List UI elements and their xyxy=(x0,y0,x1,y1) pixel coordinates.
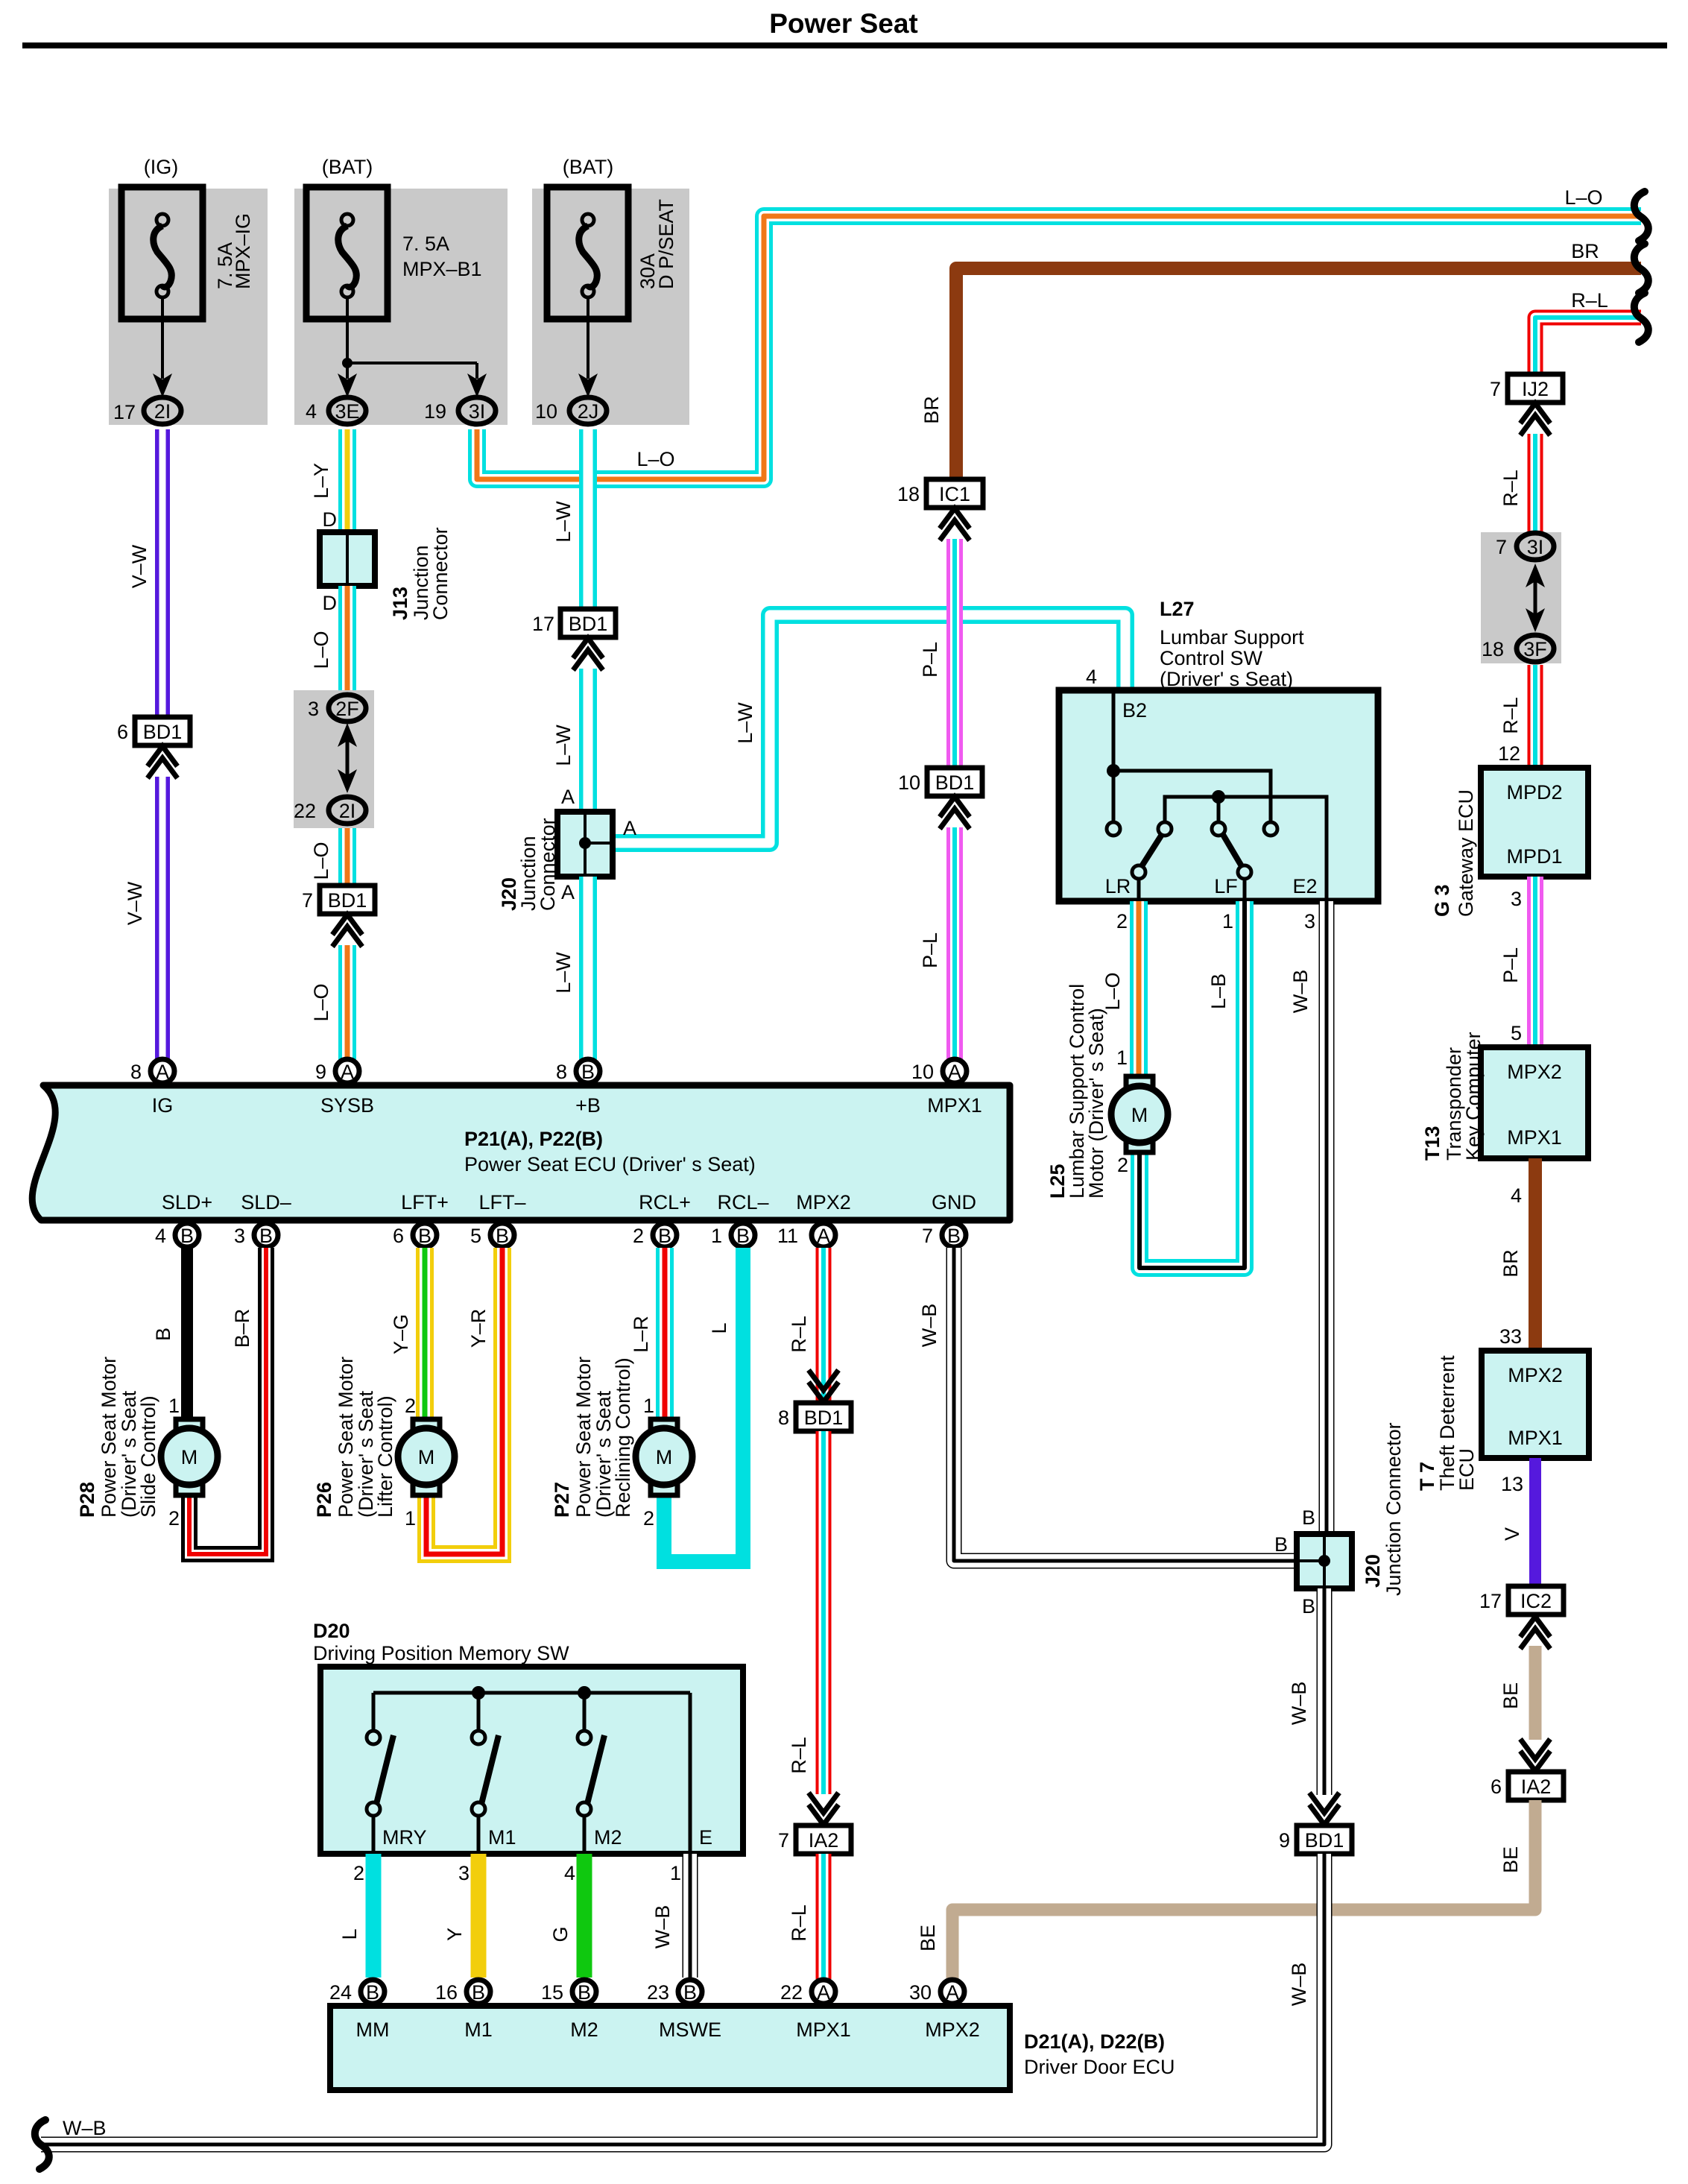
double arrow between 3I and 3F xyxy=(1526,564,1545,632)
svg-text:IG: IG xyxy=(152,1094,174,1117)
chevron up under 10 BD1 xyxy=(940,797,970,829)
svg-text:17: 17 xyxy=(532,613,554,635)
svg-text:L–O: L–O xyxy=(310,631,332,669)
svg-text:B: B xyxy=(496,1225,509,1247)
svg-text:L–O: L–O xyxy=(636,448,674,470)
Transponder Key Computer T13 box xyxy=(1421,1032,1588,1161)
connector oval 3E pin 4 xyxy=(306,397,366,424)
svg-text:B: B xyxy=(947,1225,961,1247)
svg-text:4: 4 xyxy=(1086,666,1097,688)
svg-text:4: 4 xyxy=(155,1225,166,1247)
ECU pin 9 A (SYSB) xyxy=(315,1059,359,1083)
break mark L-O right edge xyxy=(1634,192,1649,241)
svg-text:B: B xyxy=(180,1225,194,1247)
svg-text:L–O: L–O xyxy=(310,842,332,880)
wire BR from IC1 to right edge xyxy=(920,240,1641,479)
svg-text:ECU: ECU xyxy=(1455,1448,1478,1491)
svg-text:1: 1 xyxy=(405,1507,416,1530)
fuse F3 30A D P/SEAT xyxy=(547,156,677,319)
fuse block 3 background xyxy=(532,189,689,425)
svg-text:R–L: R–L xyxy=(788,1737,810,1774)
D20 switch M2 xyxy=(578,1693,622,1854)
svg-text:B: B xyxy=(1302,1595,1315,1618)
svg-text:BR: BR xyxy=(920,396,943,424)
ECU pin 8 B (+B) xyxy=(556,1059,600,1083)
svg-text:LFT–: LFT– xyxy=(478,1191,525,1213)
svg-text:4: 4 xyxy=(564,1862,575,1884)
svg-text:(BAT): (BAT) xyxy=(322,156,373,178)
svg-text:T13: T13 xyxy=(1421,1126,1444,1161)
chevron down above 6 IA2 xyxy=(1520,1739,1550,1771)
svg-text:Driver Door ECU: Driver Door ECU xyxy=(1024,2056,1175,2078)
svg-text:33: 33 xyxy=(1499,1325,1522,1348)
svg-text:L27: L27 xyxy=(1160,598,1195,620)
connector box 7 IA2 xyxy=(778,1825,851,1854)
svg-text:BE: BE xyxy=(1499,1846,1522,1873)
D21 pin 22 A (MPX1) xyxy=(780,1980,835,2004)
svg-text:W–B: W–B xyxy=(63,2117,107,2139)
svg-text:D21(A), D22(B): D21(A), D22(B) xyxy=(1024,2030,1165,2053)
chevron up under IJ2 xyxy=(1520,403,1550,435)
D20 switch MRY xyxy=(367,1693,427,1854)
connector box 7 BD1 xyxy=(302,886,375,914)
svg-text:4: 4 xyxy=(306,400,317,423)
D20 switch M1 xyxy=(472,1693,516,1854)
svg-text:L–W: L–W xyxy=(734,702,756,744)
svg-text:2J: 2J xyxy=(578,400,599,423)
connector oval 2J pin 10 xyxy=(535,397,607,424)
svg-text:B: B xyxy=(736,1225,750,1247)
svg-text:A: A xyxy=(561,881,575,903)
Driver Door ECU D21/D22 box xyxy=(330,2006,1175,2090)
svg-text:W–B: W–B xyxy=(1288,1963,1310,2007)
svg-text:Power Seat Motor: Power Seat Motor xyxy=(335,1357,357,1518)
svg-text:6: 6 xyxy=(117,721,128,743)
svg-text:1: 1 xyxy=(168,1395,180,1417)
fuse block 2 background xyxy=(294,189,508,425)
svg-text:V–W: V–W xyxy=(124,881,146,925)
svg-text:W–B: W–B xyxy=(918,1304,941,1348)
wire V-W from BD1 to ECU pin 8A xyxy=(124,777,162,1072)
svg-text:BE: BE xyxy=(917,1925,939,1951)
svg-text:7. 5A: 7. 5A xyxy=(402,233,449,255)
connector box 10 BD1 xyxy=(898,768,982,796)
wire L from motor P27 to ECU pin 1B xyxy=(643,1248,743,1562)
wire L from D20 MRY to pin 24 xyxy=(338,1854,373,1978)
svg-text:2: 2 xyxy=(405,1395,416,1417)
svg-text:16: 16 xyxy=(435,1981,458,2004)
wire V-W from 2I to BD1 xyxy=(128,429,162,717)
wire B-R from motor P28 to ECU pin 3B xyxy=(168,1248,266,1554)
connector box 8 BD1 xyxy=(778,1403,851,1431)
svg-text:10: 10 xyxy=(898,771,920,794)
svg-text:L: L xyxy=(708,1322,730,1334)
wire L-O from 7 BD1 to ECU pin 9A xyxy=(310,945,347,1072)
svg-text:2: 2 xyxy=(633,1225,644,1247)
wire L-W branch J20 to L27 pin 4 xyxy=(613,615,1125,843)
svg-text:MPX2: MPX2 xyxy=(925,2019,980,2041)
svg-text:7: 7 xyxy=(922,1225,933,1247)
svg-text:W–B: W–B xyxy=(651,1905,674,1949)
svg-text:3I: 3I xyxy=(1527,536,1544,558)
svg-text:MPX–B1: MPX–B1 xyxy=(402,258,482,280)
svg-text:P27: P27 xyxy=(551,1482,573,1518)
svg-text:M: M xyxy=(656,1446,673,1468)
motor P27 Power Seat Motor (Reclining Control) xyxy=(551,1357,692,1518)
wire W-B from J20 lower to 9 BD1 xyxy=(1288,1588,1324,1795)
svg-text:LF: LF xyxy=(1214,875,1238,897)
wire fuse1 to connector xyxy=(153,297,172,397)
svg-text:1: 1 xyxy=(643,1395,654,1417)
motor L25 Lumbar Support Control Motor xyxy=(1046,984,1168,1199)
chevron up under 6 BD1 xyxy=(148,746,177,778)
wire W-B from L27 E2 pin 3 to J20 xyxy=(1289,901,1327,1534)
svg-text:M1: M1 xyxy=(488,1826,516,1849)
svg-text:D: D xyxy=(323,592,338,614)
ECU pin 7 B (GND) xyxy=(922,1223,966,1247)
svg-text:R–L: R–L xyxy=(1499,697,1522,734)
svg-text:SYSB: SYSB xyxy=(320,1094,374,1117)
svg-text:Connector: Connector xyxy=(429,527,452,620)
wire BE from IC2 to IA2 xyxy=(1499,1646,1535,1740)
svg-text:Power Seat: Power Seat xyxy=(769,8,917,39)
svg-text:B: B xyxy=(152,1328,174,1341)
fuse F2 7.5A MPX-B1 xyxy=(306,156,482,319)
svg-text:B: B xyxy=(683,1981,697,2004)
svg-text:BD1: BD1 xyxy=(143,721,183,743)
svg-text:P–L: P–L xyxy=(1499,947,1522,983)
svg-text:Reclining Control): Reclining Control) xyxy=(612,1357,634,1518)
svg-text:IA2: IA2 xyxy=(809,1829,839,1852)
svg-text:L–O: L–O xyxy=(1564,186,1602,209)
svg-text:IJ2: IJ2 xyxy=(1522,378,1549,400)
svg-text:B: B xyxy=(1274,1533,1288,1556)
svg-text:30: 30 xyxy=(909,1981,932,2004)
svg-text:L–W: L–W xyxy=(552,952,575,994)
fuse block 1 background xyxy=(109,189,268,425)
svg-text:B–R: B–R xyxy=(231,1309,253,1348)
svg-text:SLD–: SLD– xyxy=(241,1191,291,1213)
chevron up under IC2 xyxy=(1520,1617,1550,1649)
svg-text:MPX1: MPX1 xyxy=(927,1094,982,1117)
svg-text:Connector: Connector xyxy=(537,818,559,911)
svg-text:J13: J13 xyxy=(389,587,411,620)
svg-text:B: B xyxy=(658,1225,671,1247)
svg-text:19: 19 xyxy=(424,400,446,423)
svg-text:Power Seat Motor: Power Seat Motor xyxy=(98,1357,120,1518)
svg-text:A: A xyxy=(341,1061,354,1083)
svg-text:B: B xyxy=(578,1981,591,2004)
wire L-O from J13 to 2F xyxy=(310,586,347,690)
wire L-O from 3I to right edge xyxy=(477,186,1641,479)
svg-text:18: 18 xyxy=(1482,638,1504,660)
svg-text:Slide Control): Slide Control) xyxy=(137,1395,159,1518)
title Power Seat xyxy=(769,8,917,39)
svg-text:E2: E2 xyxy=(1292,875,1317,897)
connector box 9 BD1 xyxy=(1279,1825,1352,1854)
wire BE from IA2 to Driver Door ECU pin 30 xyxy=(917,1800,1535,1979)
svg-text:B: B xyxy=(366,1981,379,2004)
svg-text:13: 13 xyxy=(1501,1473,1523,1495)
D20 internal bus xyxy=(373,1686,690,1854)
svg-text:MPX2: MPX2 xyxy=(796,1191,851,1213)
wire R-L top right to IJ2 xyxy=(1535,289,1641,374)
svg-text:3: 3 xyxy=(234,1225,245,1247)
svg-text:11: 11 xyxy=(777,1225,798,1247)
connector oval 2F pin 3 xyxy=(308,695,366,722)
svg-text:6: 6 xyxy=(1491,1776,1502,1798)
svg-text:G 3: G 3 xyxy=(1431,884,1453,917)
svg-text:8: 8 xyxy=(556,1061,567,1083)
svg-text:D: D xyxy=(323,508,338,531)
wire W-B from 9 BD1 to bottom left xyxy=(41,1854,1324,2144)
svg-text:IC2: IC2 xyxy=(1520,1590,1552,1612)
svg-text:Y–G: Y–G xyxy=(390,1314,412,1354)
svg-text:3: 3 xyxy=(458,1862,470,1884)
svg-text:(Driver' s Seat): (Driver' s Seat) xyxy=(1160,668,1293,690)
svg-text:L–Y: L–Y xyxy=(310,463,332,499)
svg-text:MPX2: MPX2 xyxy=(1507,1061,1562,1083)
svg-text:22: 22 xyxy=(294,800,316,822)
chevron up under 7 BD1 xyxy=(332,915,362,947)
svg-text:E: E xyxy=(699,1826,712,1849)
junction connector J13 xyxy=(320,527,452,620)
svg-text:10: 10 xyxy=(911,1061,934,1083)
svg-text:2I: 2I xyxy=(339,800,356,822)
svg-text:3: 3 xyxy=(1511,888,1522,910)
svg-text:Gateway ECU: Gateway ECU xyxy=(1455,789,1477,917)
ECU pin 11 A (MPX2) xyxy=(777,1223,835,1247)
svg-text:BD1: BD1 xyxy=(328,889,367,912)
wire L-B from motor L25 pin 2 to L27 LF pin 1 xyxy=(1117,901,1245,1268)
svg-text:MSWE: MSWE xyxy=(659,2019,721,2041)
wire Y from D20 M1 to pin 16 xyxy=(443,1854,478,1978)
svg-text:L–W: L–W xyxy=(552,725,575,766)
svg-text:L–B: L–B xyxy=(1207,973,1230,1009)
svg-text:18: 18 xyxy=(897,483,920,505)
svg-text:Junction Connector: Junction Connector xyxy=(1382,1422,1405,1596)
wire BR from T13 pin 4 to T7 pin 33 xyxy=(1499,1158,1535,1351)
chevron up under 17 BD1 xyxy=(573,638,603,670)
L27 internal circuit xyxy=(1107,690,1327,901)
chevron up under IC1 xyxy=(940,508,970,540)
svg-text:17: 17 xyxy=(1479,1590,1502,1612)
svg-text:9: 9 xyxy=(315,1061,326,1083)
junction connector J20 lower xyxy=(1297,1422,1405,1596)
svg-text:L–W: L–W xyxy=(552,501,575,543)
svg-text:R–L: R–L xyxy=(1571,289,1608,312)
wire P-L from MPD1 to T13 pin 5 xyxy=(1499,877,1535,1047)
break mark BR right edge xyxy=(1634,244,1649,293)
header rule xyxy=(22,42,1667,48)
wire L-O from 2I to 7 BD1 xyxy=(310,828,347,886)
svg-text:V–W: V–W xyxy=(128,544,151,588)
connector box 6 BD1 xyxy=(117,717,190,745)
ECU pin 2 B (RCL+) xyxy=(633,1223,677,1247)
svg-text:BD1: BD1 xyxy=(569,613,608,635)
svg-text:24: 24 xyxy=(329,1981,352,2004)
wire B from ECU pin 4B to motor P28 xyxy=(152,1248,187,1419)
svg-text:3F: 3F xyxy=(1523,638,1547,660)
D21 pin 24 B (MM) xyxy=(329,1980,385,2004)
svg-text:Lifter Control): Lifter Control) xyxy=(374,1395,396,1518)
svg-text:Key Computer: Key Computer xyxy=(1462,1032,1485,1161)
svg-text:P–L: P–L xyxy=(919,932,941,968)
svg-text:MRY: MRY xyxy=(382,1826,427,1849)
svg-text:L–O: L–O xyxy=(1101,972,1124,1010)
svg-text:Y–R: Y–R xyxy=(467,1309,490,1348)
wire L-W from J20 to ECU pin 8B xyxy=(552,877,588,1072)
svg-text:Y: Y xyxy=(443,1928,466,1941)
motor P26 Power Seat Motor (Lifter Control) xyxy=(313,1357,455,1518)
svg-text:P26: P26 xyxy=(313,1482,335,1518)
ECU pin 5 B (LFT-) xyxy=(470,1223,514,1247)
svg-text:B: B xyxy=(581,1061,595,1083)
svg-text:IC1: IC1 xyxy=(939,483,970,505)
svg-text:RCL+: RCL+ xyxy=(639,1191,691,1213)
svg-text:B: B xyxy=(418,1225,432,1247)
svg-text:BR: BR xyxy=(1499,1249,1522,1278)
svg-text:M1: M1 xyxy=(464,2019,493,2041)
svg-text:1: 1 xyxy=(1116,1047,1128,1069)
wire fuse3 to connector xyxy=(578,297,598,397)
svg-text:BE: BE xyxy=(1499,1682,1522,1709)
svg-text:BD1: BD1 xyxy=(804,1407,844,1429)
svg-text:LR: LR xyxy=(1105,875,1131,897)
svg-text:2: 2 xyxy=(1116,910,1128,932)
svg-text:B: B xyxy=(1302,1506,1315,1529)
svg-text:Motor (Driver' s Seat): Motor (Driver' s Seat) xyxy=(1085,1008,1107,1199)
svg-text:Control SW: Control SW xyxy=(1160,647,1263,669)
ECU pin 10 A (MPX1) xyxy=(911,1059,967,1083)
svg-text:7: 7 xyxy=(778,1829,789,1852)
svg-text:R–L: R–L xyxy=(788,1904,810,1942)
svg-text:MPX1: MPX1 xyxy=(1508,1427,1563,1449)
D21 pin 23 B (MSWE) xyxy=(647,1980,702,2004)
Lumbar Support Control SW L27 box xyxy=(1059,598,1378,901)
svg-text:7: 7 xyxy=(302,889,313,912)
svg-text:W–B: W–B xyxy=(1288,1682,1310,1726)
svg-text:MPX1: MPX1 xyxy=(796,2019,851,2041)
svg-text:17: 17 xyxy=(113,401,136,423)
svg-text:L–R: L–R xyxy=(630,1316,652,1353)
wire R-L from 7 IA2 to Driver Door ECU pin 22 xyxy=(788,1854,824,1979)
ECU pin 8 A (IG) xyxy=(130,1059,174,1083)
wire R-L from IJ2 to 3I oval xyxy=(1499,434,1535,532)
connector oval 2I pin 22 xyxy=(294,797,366,824)
wire W-B from ECU pin 7B GND to J20 xyxy=(918,1248,1297,1561)
svg-text:D P/SEAT: D P/SEAT xyxy=(655,199,677,289)
svg-text:2: 2 xyxy=(643,1507,654,1530)
svg-text:P28: P28 xyxy=(76,1482,98,1518)
svg-text:9: 9 xyxy=(1279,1829,1290,1852)
Driving Position Memory SW D20 box xyxy=(313,1620,743,1854)
svg-text:V: V xyxy=(1501,1527,1523,1541)
wire P-L from IC1 to 10 BD1 xyxy=(919,539,955,768)
svg-text:B2: B2 xyxy=(1122,699,1147,722)
connector box 17 BD1 xyxy=(532,609,616,637)
motor P28 Power Seat Motor (Slide Control) xyxy=(76,1357,218,1518)
svg-text:M2: M2 xyxy=(570,2019,598,2041)
svg-text:Driving Position Memory SW: Driving Position Memory SW xyxy=(313,1642,569,1664)
wire W-B from D20 E to pin 23 xyxy=(651,1854,690,1978)
break mark R-L right edge xyxy=(1634,293,1649,342)
svg-text:SLD+: SLD+ xyxy=(162,1191,212,1213)
svg-text:A: A xyxy=(817,1981,830,2004)
svg-text:G: G xyxy=(549,1926,572,1942)
svg-text:2: 2 xyxy=(353,1862,364,1884)
svg-text:RCL–: RCL– xyxy=(717,1191,768,1213)
wire P-L from 10 BD1 to ECU pin 10A xyxy=(919,827,955,1072)
svg-text:MPX1: MPX1 xyxy=(1507,1126,1562,1149)
svg-text:IA2: IA2 xyxy=(1521,1776,1552,1798)
svg-text:M: M xyxy=(1131,1104,1148,1126)
svg-text:M2: M2 xyxy=(594,1826,622,1849)
D21 pin 15 B (M2) xyxy=(541,1980,596,2004)
svg-text:15: 15 xyxy=(541,1981,563,2004)
ECU pin 6 B (LFT+) xyxy=(393,1223,437,1247)
chevron down above 9 BD1 xyxy=(1309,1793,1339,1825)
svg-text:R–L: R–L xyxy=(788,1316,810,1353)
svg-text:P21(A), P22(B): P21(A), P22(B) xyxy=(464,1128,603,1150)
svg-text:(BAT): (BAT) xyxy=(563,156,614,178)
svg-text:BD1: BD1 xyxy=(935,771,975,794)
svg-text:A: A xyxy=(946,1981,959,2004)
svg-text:MPD1: MPD1 xyxy=(1506,845,1562,868)
svg-text:L–O: L–O xyxy=(310,983,332,1021)
svg-text:B: B xyxy=(259,1225,273,1247)
svg-text:5: 5 xyxy=(1511,1022,1522,1044)
svg-text:MM: MM xyxy=(356,2019,390,2041)
ECU pin 4 B (SLD+) xyxy=(155,1223,199,1247)
wire fuse2 branch xyxy=(338,297,487,397)
wire R-L from 3F to Gateway ECU pin 12 xyxy=(1498,665,1535,768)
svg-text:GND: GND xyxy=(932,1191,976,1213)
svg-text:MPX–IG: MPX–IG xyxy=(232,213,254,289)
Gateway ECU G3 box xyxy=(1431,768,1588,917)
Power Seat ECU P21/P22 box xyxy=(32,1085,1010,1220)
wire R-L from ECU pin 11A to 8 BD1 xyxy=(788,1248,824,1403)
D21 pin 16 B (M1) xyxy=(435,1980,490,2004)
svg-text:Power Seat Motor: Power Seat Motor xyxy=(572,1357,595,1518)
fuse F1 7.5A MPX-IG xyxy=(121,156,254,319)
svg-text:A: A xyxy=(948,1061,961,1083)
svg-text:7: 7 xyxy=(1496,536,1507,558)
Theft Deterrent ECU T7 box xyxy=(1416,1351,1589,1491)
svg-text:2I: 2I xyxy=(154,400,171,423)
svg-text:M: M xyxy=(181,1446,198,1468)
svg-text:1: 1 xyxy=(1222,910,1233,932)
break mark W-B bottom left xyxy=(35,2120,49,2169)
svg-text:12: 12 xyxy=(1498,742,1520,765)
wire Y-G from ECU pin 6B to motor P26 xyxy=(390,1248,425,1419)
svg-text:R–L: R–L xyxy=(1499,470,1522,507)
svg-text:L: L xyxy=(338,1928,361,1940)
svg-text:A: A xyxy=(623,817,636,839)
wire Y-R from motor P26 to ECU pin 5B xyxy=(405,1248,502,1554)
svg-text:(IG): (IG) xyxy=(144,156,179,178)
svg-text:+B: +B xyxy=(575,1094,601,1117)
connector box 18 IC1 xyxy=(897,479,983,508)
wire L-W from 2J to 17 BD1 xyxy=(552,429,588,609)
ECU pin 3 B (SLD-) xyxy=(234,1223,278,1247)
svg-text:P–L: P–L xyxy=(919,642,941,678)
svg-text:3I: 3I xyxy=(469,400,486,423)
svg-text:M: M xyxy=(418,1446,435,1468)
svg-text:A: A xyxy=(156,1061,169,1083)
svg-text:8: 8 xyxy=(778,1407,789,1429)
connector box 6 IA2 xyxy=(1491,1772,1564,1800)
